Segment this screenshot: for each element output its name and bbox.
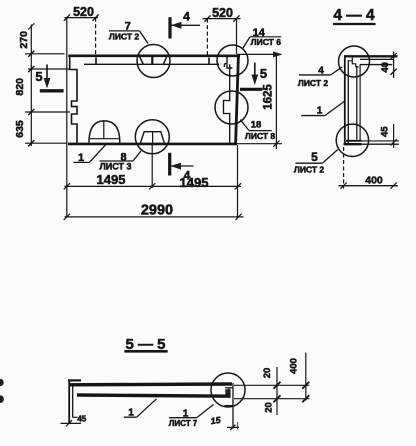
svg-text:5: 5 <box>35 69 42 84</box>
slab top line <box>69 382 232 386</box>
top edge tick x151 <box>151 57 153 64</box>
svg-text:45: 45 <box>379 126 390 137</box>
end hook vertical long <box>232 383 234 429</box>
detail circle 4-4 top <box>339 46 370 77</box>
lifting loop dome <box>89 121 120 143</box>
dim line 400 (5-5) <box>305 353 307 401</box>
rib foot tick <box>61 422 82 424</box>
slab bottom line <box>77 395 231 396</box>
extension right x237.5 <box>237 145 239 218</box>
bottom foot lines + extensions <box>346 140 362 142</box>
top flange second line <box>360 58 394 60</box>
panel bottom edge <box>68 143 237 146</box>
svg-text:20: 20 <box>262 368 273 379</box>
end hook top horizontal <box>225 387 233 389</box>
svg-text:400: 400 <box>289 358 300 374</box>
right extension top <box>234 384 309 386</box>
dim line 20/20 <box>276 367 278 415</box>
svg-text:520: 520 <box>73 5 94 19</box>
extension at y69 <box>28 68 70 70</box>
left edge blob 2 <box>0 395 4 403</box>
svg-text:635: 635 <box>14 120 26 138</box>
svg-text:40: 40 <box>380 62 391 73</box>
detail circle 1 (top, ЛИСТ 2) <box>137 45 170 78</box>
svg-text:ЛИСТ 2: ЛИСТ 2 <box>298 78 329 88</box>
detail circle 2 (top right, ЛИСТ 6) <box>217 45 248 76</box>
svg-text:520: 520 <box>212 6 233 20</box>
right dim line 4-4 <box>393 52 395 79</box>
panel right edge inner with key <box>224 64 230 143</box>
right extension bottom <box>234 398 309 400</box>
top flange inner bottom <box>360 64 393 66</box>
panel top edge inner line <box>84 63 219 65</box>
left edge blob 1 <box>0 379 4 386</box>
detail circle 5-5 <box>211 373 245 407</box>
dim line 520 #1 <box>65 17 99 19</box>
svg-text:4 — 4: 4 — 4 <box>333 7 375 24</box>
end hook filled block <box>225 389 230 396</box>
end hook bottom horizontal <box>225 405 234 407</box>
svg-text:4: 4 <box>183 9 190 23</box>
top flange outer <box>344 55 398 57</box>
svg-text:45: 45 <box>77 415 86 424</box>
svg-text:2990: 2990 <box>141 203 173 219</box>
svg-text:ЛИСТ 6: ЛИСТ 6 <box>251 37 282 47</box>
end hook inner vertical <box>228 388 230 398</box>
detail circle 3 (right, ЛИСТ 8) <box>215 91 248 124</box>
extension 520#2 right <box>236 19 238 54</box>
1625 bottom extension <box>237 143 282 145</box>
svg-text:ЛИСТ 8: ЛИСТ 8 <box>245 131 276 141</box>
1625 dim line <box>275 54 277 149</box>
svg-text:18: 18 <box>251 120 262 131</box>
svg-text:1625: 1625 <box>263 84 275 110</box>
recess slant left in circle 1 <box>140 57 144 64</box>
section mark 4 top: bar <box>168 17 171 38</box>
left dim chain vertical line <box>30 25 32 147</box>
web inner lines <box>356 66 358 140</box>
dimension extension line left main <box>66 18 68 218</box>
top edge tick x209 <box>208 58 210 65</box>
section mark 4 top: arrow <box>171 24 200 26</box>
web second line <box>347 60 349 144</box>
extension mid x152 <box>151 145 153 188</box>
1625 top extension with arrow <box>237 53 281 55</box>
svg-text:1495: 1495 <box>97 172 126 187</box>
web outer left line <box>344 56 346 145</box>
extension 520#2 left <box>206 19 208 56</box>
panel left edge profile with two keys <box>70 57 77 143</box>
svg-text:ЛИСТ 7: ЛИСТ 7 <box>169 419 198 428</box>
svg-text:400: 400 <box>365 175 383 187</box>
recess slant right in circle 1 <box>163 57 166 64</box>
top edge tick x96 <box>95 58 97 65</box>
rib inner bottom connect <box>73 416 78 418</box>
400 dim line <box>339 185 398 187</box>
svg-text:5: 5 <box>311 150 318 164</box>
trapezoid detail in circle 4 <box>141 132 165 143</box>
extension 520#1 right <box>95 18 97 55</box>
svg-text:820: 820 <box>14 78 26 96</box>
tiny 15 dim line <box>227 426 239 428</box>
section mark 4 bottom: bar <box>168 153 171 176</box>
dim line 520 #2 <box>203 18 241 20</box>
extension at y143.2 <box>25 142 67 144</box>
panel top edge <box>68 54 240 57</box>
corner step detail 4-4 <box>349 58 359 67</box>
left dim chain top tick <box>28 23 34 29</box>
panel right edge outer <box>236 56 239 144</box>
detail circle 4-4 bottom <box>336 124 368 156</box>
dim line 2990 <box>65 216 244 218</box>
svg-text:ЛИСТ 3: ЛИСТ 3 <box>99 161 131 171</box>
dim line 1495/1495 <box>65 185 242 187</box>
top-right corner hook detail <box>224 57 232 68</box>
left rib inner <box>72 384 74 418</box>
extension at y112 <box>25 111 70 113</box>
svg-text:5: 5 <box>260 66 267 81</box>
svg-text:270: 270 <box>18 31 30 49</box>
svg-text:1495: 1495 <box>180 175 209 190</box>
svg-text:20: 20 <box>264 402 275 413</box>
svg-text:15: 15 <box>210 415 222 426</box>
svg-text:ЛИСТ 2: ЛИСТ 2 <box>294 165 325 175</box>
rib top connect <box>68 379 81 381</box>
svg-text:ЛИСТ 2: ЛИСТ 2 <box>109 32 140 42</box>
left rib outer <box>68 380 70 424</box>
extension at y53.8 <box>25 53 65 55</box>
detail circle 4 (bottom, ЛИСТ 3) <box>135 120 169 154</box>
